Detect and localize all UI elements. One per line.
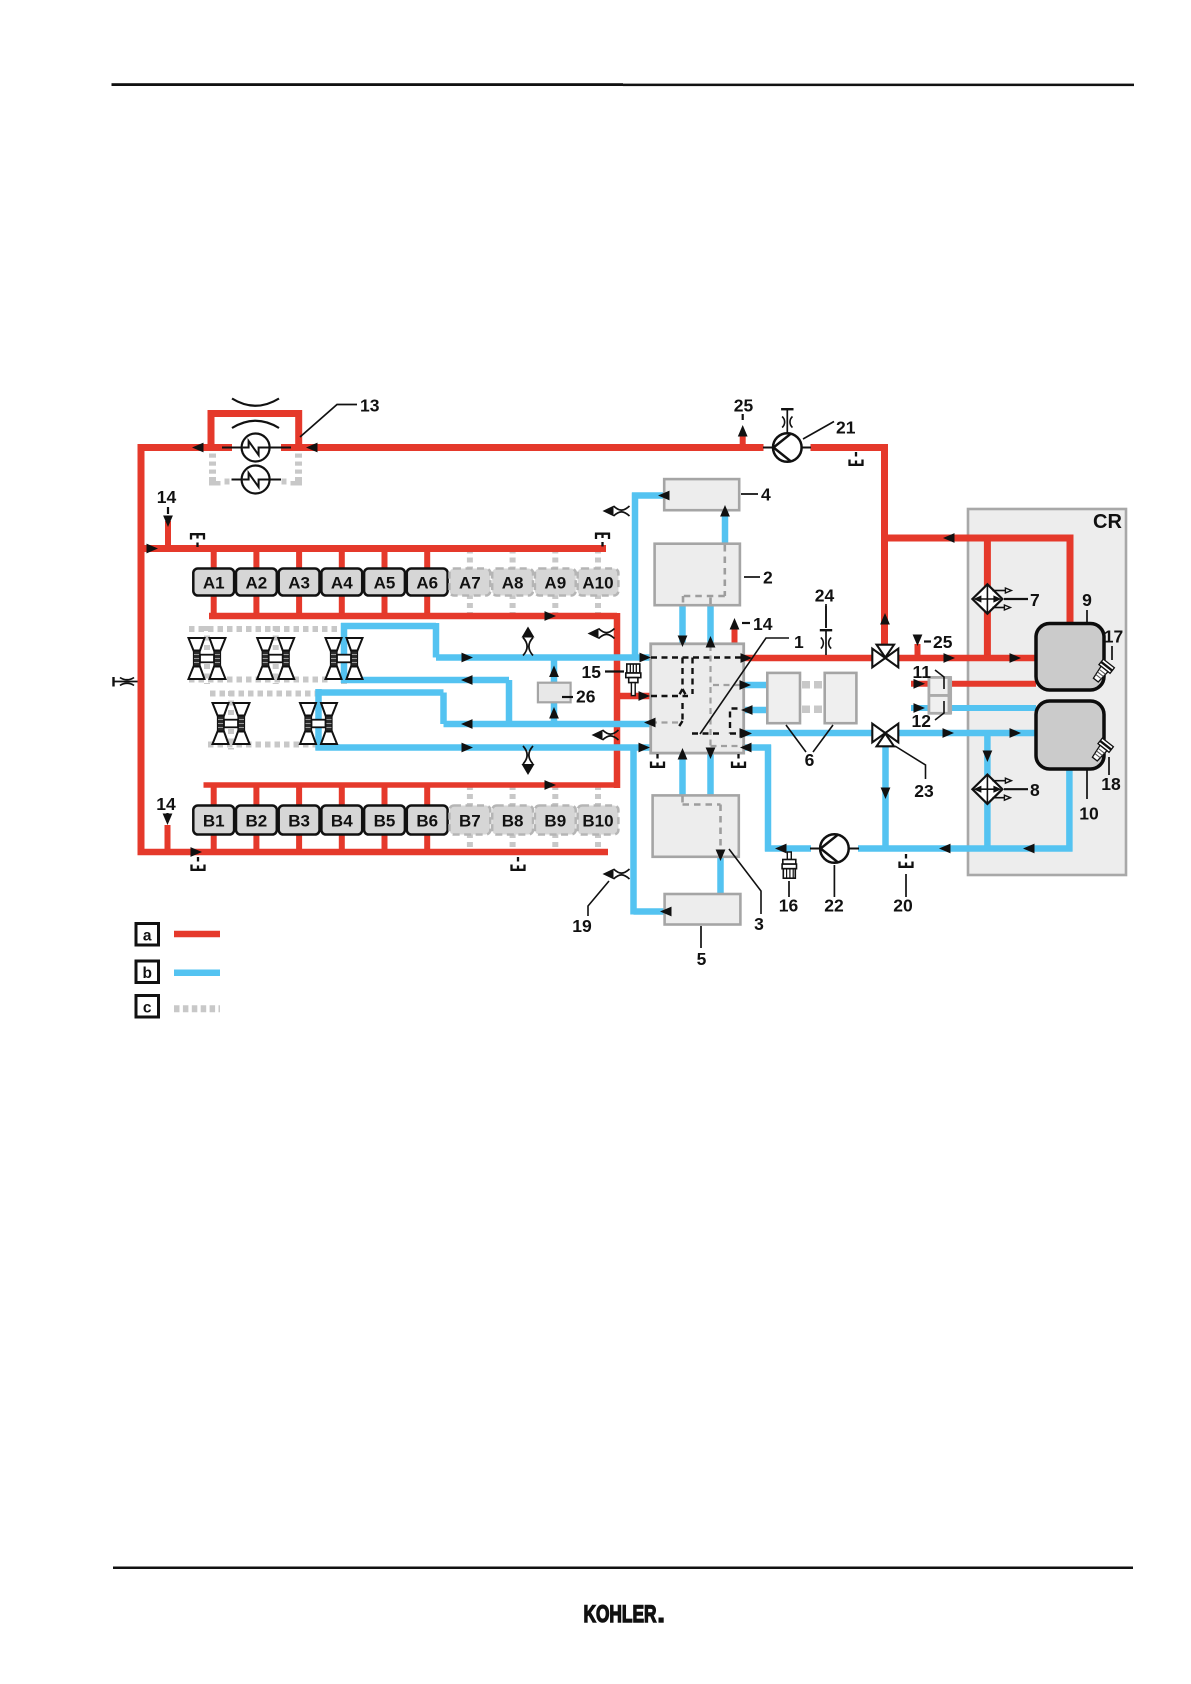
svg-text:b: b (142, 965, 151, 982)
cylinder A3 (279, 569, 320, 596)
label 3 (729, 849, 761, 914)
valve 23 (3-way) (872, 724, 898, 747)
wire: blue T3 bottom run (341, 677, 509, 684)
cylinder A8 (492, 569, 533, 596)
wire: red A-row top header (138, 545, 607, 552)
valve 24 (3-way) (872, 645, 898, 668)
wire: blue drop T3 loop (506, 680, 513, 724)
dashed stubs B7-B10 (467, 785, 473, 807)
wire: red stub below A6 (424, 594, 430, 616)
box 3 (653, 795, 739, 856)
wire: blue pump 22 suction (765, 845, 811, 852)
wire: blue drop below valve 23 (882, 745, 889, 852)
label 2 (744, 576, 760, 578)
wire: blue vertical through turbo T5 (315, 689, 322, 751)
wire: red left riser (138, 444, 145, 852)
wire: red stub 14 A-row (165, 521, 171, 549)
sensor 16 (782, 852, 796, 878)
element 26 (538, 683, 571, 703)
wire: blue stub box 2 to box 4 (722, 508, 729, 545)
vent symbol at mid riser bottom (592, 730, 619, 741)
svg-text:A4: A4 (331, 574, 353, 593)
wire: blue drop T5 loop (440, 693, 447, 725)
vent symbol below line 5 (522, 746, 535, 775)
wire: red top main (left of heater 13) (138, 444, 233, 451)
svg-text:B6: B6 (416, 812, 438, 831)
wire: red stub above B4 (339, 785, 345, 807)
CR cooling-module enclosure (968, 509, 1126, 875)
svg-text:18: 18 (1101, 774, 1121, 794)
svg-text:A9: A9 (544, 574, 566, 593)
wire: red stub below B1 (211, 833, 217, 852)
dashed elbow left of heater 13 (209, 454, 216, 458)
wire: blue stub below element 26 (551, 701, 558, 724)
expansion tank 9 (1036, 624, 1104, 691)
wire: red stub 14 engine top (732, 627, 738, 645)
wire: blue stub box 2 to engine left (679, 604, 686, 645)
label 26 (562, 696, 573, 698)
dashed connectors of oil module 6 (802, 681, 810, 689)
svg-text:19: 19 (572, 916, 592, 936)
svg-text:7: 7 (1030, 590, 1040, 610)
cap 18 (1089, 738, 1113, 763)
wire: blue turbo return line 5 (316, 744, 651, 751)
label 8 (1004, 788, 1028, 790)
turbo T2 (257, 638, 294, 679)
wire: red line 11 to tank 9 (911, 681, 1036, 687)
svg-text:A8: A8 (502, 574, 524, 593)
wire: red stub below B6 (424, 833, 430, 852)
wire: red stub below B2 (253, 833, 259, 852)
filler couplings 11/12 (929, 677, 951, 695)
svg-text:B1: B1 (203, 812, 225, 831)
wire: blue engine to valve 23 (745, 730, 874, 737)
svg-text:2: 2 (763, 568, 773, 588)
svg-text:B7: B7 (459, 812, 481, 831)
wire: blue engine to oil module 6 (745, 682, 769, 689)
label 23 (895, 746, 926, 779)
wire: red stub above A1 (211, 549, 217, 571)
wire: blue oil module 6 to engine (745, 707, 769, 714)
cylinder B7 (450, 806, 491, 835)
black dashed thermostat path inside engine (651, 658, 746, 734)
heater 13 connector line (222, 447, 291, 449)
svg-text:A7: A7 (459, 574, 481, 593)
dashed rail below turbos B (208, 742, 322, 748)
venturi arcs above heater 13 (232, 399, 279, 406)
wire: blue CR vertical through vent 8 (984, 733, 991, 849)
wire: red engine outlet to valve 24 (745, 655, 874, 662)
legend red line (174, 931, 220, 938)
label 4 (741, 493, 758, 495)
wire: blue run into box 4 (632, 492, 664, 499)
label 14 engine (742, 622, 750, 624)
wire: red heater 13 bypass loop (211, 414, 299, 450)
legend box c (136, 996, 159, 1018)
label 20 (905, 874, 907, 897)
svg-text:B10: B10 (582, 812, 613, 831)
svg-text:A1: A1 (203, 574, 225, 593)
wire: red stub above B5 (382, 785, 388, 807)
wire: red B-row top header (204, 782, 621, 788)
cylinder B9 (535, 806, 576, 835)
restrictor on left riser (114, 677, 138, 687)
wire: red stub above A5 (382, 549, 388, 571)
svg-text:1: 1 (794, 632, 804, 652)
dashed rail below turbos A (189, 677, 331, 683)
wire: red CR top line (881, 535, 1070, 542)
wire: blue drop to engine inlet line (433, 623, 440, 658)
drain E below engine left (650, 754, 665, 767)
cooler 5 (665, 894, 741, 925)
wire: red stub 14 B-row (165, 825, 171, 852)
flow arrows blue (658, 491, 670, 501)
expansion tank 10 (1036, 701, 1104, 769)
wire: blue pump 22 discharge (858, 845, 1073, 852)
label 10 (1086, 770, 1088, 799)
cylinder B8 (492, 806, 533, 835)
wire: red stub below B5 (382, 833, 388, 852)
oil module 6 box right (825, 673, 857, 723)
wire: red right riser to valve 24 (881, 445, 888, 651)
svg-text:12: 12 (912, 711, 932, 731)
legend box a (136, 924, 159, 946)
callout line for label 1 (700, 638, 789, 734)
wire: red stub below B4 (339, 833, 345, 852)
svg-text:4: 4 (761, 485, 771, 505)
bottom rule (113, 1567, 1133, 1570)
wire: blue line 12 to tank 10 (911, 705, 1036, 711)
vent 7 (972, 584, 1011, 613)
sensor 15 (626, 664, 641, 696)
heater 13 connector line (222, 447, 291, 449)
dashed path inside 2 (683, 545, 725, 605)
vent symbol at box 4 riser (603, 506, 630, 517)
wire: red engine feed stub (617, 693, 650, 700)
label 7 (1004, 598, 1028, 600)
legend blue line (174, 970, 220, 977)
svg-text:6: 6 (805, 750, 815, 770)
dashed elbow right of heater 13 (295, 454, 302, 458)
drain E below stub 14 A-row (190, 534, 205, 547)
heater 13 element circles (242, 434, 270, 462)
pump 22 (810, 848, 820, 850)
svg-text:13: 13 (360, 396, 380, 416)
svg-text:16: 16 (779, 896, 799, 916)
arrow out of 3 (716, 850, 726, 862)
label 19 (588, 881, 609, 916)
svg-text:A3: A3 (288, 574, 310, 593)
legend dashed line (174, 1005, 220, 1012)
wire: red stub above B3 (296, 785, 302, 807)
svg-text:21: 21 (836, 418, 856, 438)
cylinder A5 (364, 569, 405, 596)
wire: red stub below A1 (211, 594, 217, 616)
vent symbol at mid riser top (588, 628, 615, 639)
svg-text:9: 9 (1082, 590, 1092, 610)
svg-text:A6: A6 (416, 574, 438, 593)
svg-text:25: 25 (734, 396, 754, 416)
wire: blue tank 10 outlet drop (1066, 765, 1073, 852)
svg-text:B9: B9 (544, 812, 566, 831)
gray dashed path inside engine (651, 645, 746, 752)
dashed path inside 3 (683, 796, 721, 851)
wire: blue stub engine to box 2 right (707, 604, 714, 645)
wire: blue stub box 3 to cooler 5 (717, 856, 724, 896)
cylinder A4 (321, 569, 362, 596)
cylinder A6 (407, 569, 448, 596)
drain E 20 (898, 854, 913, 867)
svg-text:25: 25 (933, 632, 953, 652)
wire: blue riser pump line to engine (765, 745, 772, 852)
dashed rail above turbos A (189, 626, 345, 632)
wire: red stub below A2 (253, 594, 259, 616)
svg-text:A10: A10 (582, 574, 613, 593)
cylinder A2 (236, 569, 277, 596)
wire: red stub above B1 (211, 785, 217, 807)
wire: red CR vertical through vent 7 (984, 538, 991, 661)
wire: blue engine right to riser (745, 744, 772, 751)
wire: red stub above A3 (296, 549, 302, 571)
drain E at A-row header end (595, 534, 610, 547)
wire: blue engine bottom stub left (679, 752, 686, 796)
svg-text:B2: B2 (246, 812, 268, 831)
wire: blue valve 23 to tank 10 (898, 730, 1037, 737)
pump 21 (763, 447, 773, 449)
svg-text:10: 10 (1079, 804, 1099, 824)
svg-text:B3: B3 (288, 812, 310, 831)
sensor 24 (820, 630, 832, 655)
wire: blue T3 top run (341, 623, 436, 630)
cylinder B2 (236, 806, 277, 835)
cylinder B3 (279, 806, 320, 835)
svg-text:8: 8 (1030, 780, 1040, 800)
drain E below engine right (731, 754, 746, 767)
svg-text:15: 15 (582, 662, 602, 682)
wire: red stub above A4 (339, 549, 345, 571)
cylinder A10 (578, 569, 619, 596)
svg-text:CR: CR (1093, 511, 1122, 533)
wire: blue vertical through turbo T3 (341, 623, 348, 683)
wire: blue stub above element 26 (551, 658, 558, 685)
cylinder A1 (193, 569, 234, 596)
wire: blue vertical from heater box 4 (632, 493, 639, 658)
label 5 (700, 926, 702, 948)
wire: red mid riser (614, 613, 621, 788)
cap 17 (1090, 659, 1114, 684)
wire: blue T5 top run (316, 689, 444, 696)
svg-text:B5: B5 (374, 812, 396, 831)
cylinder B10 (578, 806, 619, 835)
svg-text:14: 14 (156, 794, 176, 814)
heater box 4 (664, 479, 739, 510)
turbo T4 (213, 703, 250, 744)
expansion element 2 (655, 544, 740, 606)
turbo T3 (326, 638, 363, 679)
wire: red B-row bottom header (138, 849, 609, 856)
engine block 1 (651, 644, 744, 753)
sensor above pump 21 (781, 409, 793, 434)
svg-text:20: 20 (893, 896, 913, 916)
svg-text:24: 24 (815, 586, 835, 606)
svg-text:KOHLER: KOHLER (584, 1601, 657, 1628)
dashed verticals through turbos (204, 626, 210, 684)
cylinder B6 (407, 806, 448, 835)
wire: red stub above B2 (253, 785, 259, 807)
label 21 (803, 422, 834, 440)
legend box b (136, 961, 159, 983)
oil module 6 box left (767, 673, 800, 723)
wire: red valve 24 to tank 9 (898, 655, 1037, 662)
top rule (112, 83, 624, 86)
wire: red stub 25 top (740, 434, 746, 448)
vent 8 (972, 775, 1011, 804)
svg-text:5: 5 (697, 949, 707, 969)
turbo T5 (300, 703, 337, 744)
wire: red stub above A2 (253, 549, 259, 571)
label 25 right (924, 640, 931, 642)
wire: red stub below A4 (339, 594, 345, 616)
wire: blue engine outlet line 4 (444, 721, 651, 728)
svg-text:3: 3 (754, 914, 764, 934)
wire: blue engine bottom stub right (707, 752, 714, 796)
svg-text:26: 26 (576, 687, 596, 707)
wire: red stub 25 right (915, 644, 921, 658)
wire: red stub below B3 (296, 833, 302, 852)
wire: red stub below A5 (382, 594, 388, 616)
wire: red CR drop to tank 9 (1067, 535, 1074, 627)
svg-text:14: 14 (157, 487, 177, 507)
drain E below B-row header (190, 857, 205, 870)
cylinder B1 (193, 806, 234, 835)
label 13 (300, 405, 357, 438)
wire: red top main (heater to pump 21) (281, 444, 764, 451)
wire: red top main (pump 21 to corner) (811, 444, 889, 451)
label 16 (788, 881, 790, 897)
wire: blue riser to cooler 5 (630, 748, 637, 915)
vent 19 symbol (603, 869, 630, 880)
svg-text:23: 23 (914, 781, 934, 801)
wire: red A-row bottom header (209, 613, 617, 620)
cylinder B4 (321, 806, 362, 835)
svg-text:A5: A5 (374, 574, 396, 593)
drain E below pump 21 line (848, 452, 863, 465)
svg-text:c: c (143, 1000, 152, 1017)
vent symbol on blue line 1 (522, 627, 535, 656)
cylinder A9 (535, 569, 576, 596)
wire: red stub above A6 (424, 549, 430, 571)
svg-text:11: 11 (913, 662, 932, 682)
dashed rail above turbos B (210, 691, 317, 697)
wire: red stub above B6 (424, 785, 430, 807)
wire: blue engine inlet line 1 (436, 654, 650, 661)
wire: blue run into cooler 5 (634, 908, 666, 915)
svg-text:B8: B8 (502, 812, 524, 831)
flow arrows red (192, 443, 204, 453)
svg-text:B4: B4 (331, 812, 353, 831)
drain E below B-row header right (510, 857, 525, 870)
svg-text:17: 17 (1104, 627, 1123, 647)
label 18 (1108, 757, 1110, 775)
label 6 (786, 725, 833, 752)
svg-text:a: a (143, 928, 152, 945)
label 22 (833, 865, 835, 897)
wire: red stub below A3 (296, 594, 302, 616)
cylinder A7 (450, 569, 491, 596)
svg-text:14: 14 (753, 614, 773, 634)
cylinder B5 (364, 806, 405, 835)
svg-text:22: 22 (824, 896, 844, 916)
svg-text:A2: A2 (246, 574, 268, 593)
dashed stubs A7-A10 (467, 549, 473, 571)
turbo T1 (189, 638, 226, 679)
